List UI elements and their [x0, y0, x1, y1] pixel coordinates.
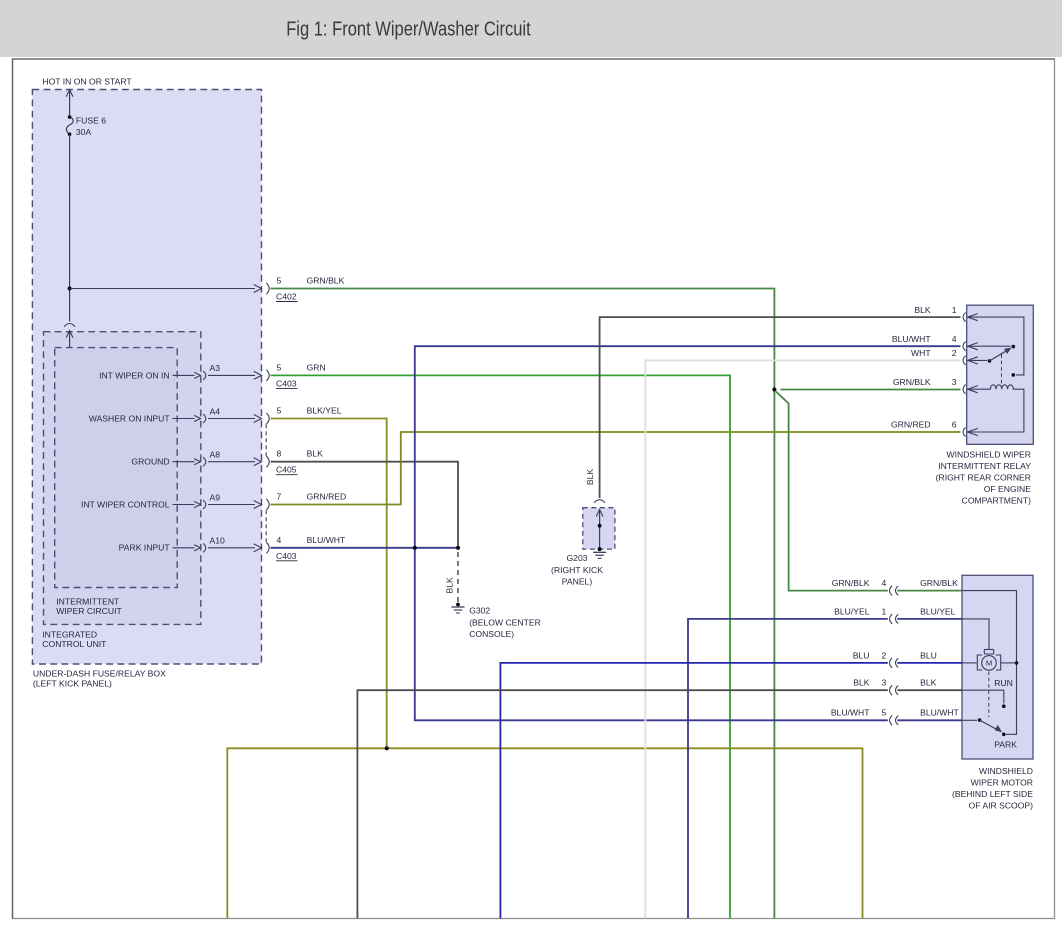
- connector to G203 (arc): [594, 500, 605, 503]
- relay coil: [968, 385, 1024, 432]
- svg-text:(RIGHT KICK: (RIGHT KICK: [551, 565, 603, 575]
- wire GRN/BLK: junction jog down to wiper motor pin 4: [776, 392, 888, 591]
- motor M symbol: [982, 656, 997, 671]
- connector C403 pin 5 (GRN): [254, 371, 262, 379]
- motor internal: pin 4 run to park contact: [962, 591, 1017, 735]
- svg-text:M: M: [986, 659, 992, 668]
- relay pin 2 connector (WHT): [963, 356, 966, 365]
- node: motor terminal junction: [1015, 661, 1019, 665]
- node: BLK to ground / park input junction: [456, 546, 460, 550]
- svg-text:(RIGHT REAR CORNER: (RIGHT REAR CORNER: [936, 472, 1031, 482]
- wire: [208, 547, 255, 549]
- svg-text:GROUND: GROUND: [131, 457, 169, 467]
- windshield wiper intermittent relay box: [967, 305, 1034, 444]
- svg-text:(BELOW CENTER: (BELOW CENTER: [469, 617, 541, 627]
- connector C405 pin 7 (GRN/RED): [254, 501, 262, 509]
- G203 internal lead: [596, 510, 603, 517]
- svg-text:3: 3: [952, 377, 957, 387]
- ground G203 symbol: [593, 551, 606, 553]
- wire BLU/YEL: wiper motor pin 1 down to bottom: [688, 619, 888, 918]
- svg-text:A4: A4: [210, 406, 221, 416]
- svg-text:INTERMITTENT: INTERMITTENT: [56, 596, 120, 606]
- svg-text:A9: A9: [210, 492, 221, 502]
- svg-text:C403: C403: [276, 551, 297, 561]
- svg-text:INT WIPER ON IN: INT WIPER ON IN: [99, 370, 170, 380]
- svg-text:5: 5: [882, 708, 887, 718]
- relay internal: pin 4 contact: [968, 345, 1011, 347]
- fuse F6 30A: [66, 117, 73, 134]
- relay pin 3 connector (GRN/BLK): [963, 385, 966, 394]
- relay switch arm: [990, 351, 1006, 361]
- svg-text:BLK: BLK: [307, 449, 324, 459]
- relay pin 6 connector (GRN/RED): [963, 427, 966, 436]
- svg-text:G302: G302: [469, 606, 490, 616]
- wire BLK: relay pin 1 to G203: [600, 317, 961, 498]
- node: GRN/BLK junction at relay pin 3 feed: [772, 387, 776, 391]
- wire WHT: relay pin 2 down to bottom: [645, 360, 960, 918]
- motor park switch mechanical link (dashed): [988, 672, 990, 718]
- svg-text:8: 8: [277, 449, 282, 459]
- wire BLK/YEL: C405 A4 down to distribution junction: [271, 419, 387, 749]
- connector C402 pin 5 (GRN/BLK): [254, 285, 262, 293]
- svg-text:4: 4: [277, 535, 282, 545]
- wire BLK/YEL: horizontal distribution run: [227, 748, 862, 918]
- svg-text:CONTROL UNIT: CONTROL UNIT: [42, 639, 107, 649]
- svg-text:A3: A3: [210, 363, 221, 373]
- wire: [208, 374, 255, 376]
- svg-text:5: 5: [277, 276, 282, 286]
- wire GRN/BLK: junction to relay pin 3: [781, 389, 961, 391]
- svg-text:C403: C403: [276, 378, 297, 388]
- svg-text:COMPARTMENT): COMPARTMENT): [962, 495, 1032, 505]
- motor connector pin 4 (GRN/BLK): [890, 586, 893, 596]
- motor internal: pin 5 to switch common: [962, 719, 977, 721]
- svg-text:C405: C405: [276, 465, 297, 475]
- intermittent wiper circuit box: [55, 348, 178, 588]
- svg-text:INT WIPER CONTROL: INT WIPER CONTROL: [81, 499, 170, 509]
- title bar: [0, 0, 1062, 57]
- svg-text:(LEFT KICK PANEL): (LEFT KICK PANEL): [33, 678, 112, 688]
- node: [598, 524, 602, 528]
- svg-text:CONSOLE): CONSOLE): [469, 629, 514, 639]
- svg-text:OF ENGINE: OF ENGINE: [984, 484, 1032, 494]
- relay mechanical link (dashed): [1001, 355, 1003, 386]
- ground G302: [456, 603, 460, 607]
- svg-text:4: 4: [882, 578, 887, 588]
- svg-text:BLU/YEL: BLU/YEL: [834, 606, 870, 616]
- connector C403 pin 4 (BLU/WHT): [254, 544, 262, 552]
- svg-text:PANEL): PANEL): [562, 577, 593, 587]
- svg-text:BLU: BLU: [853, 650, 870, 660]
- svg-text:GRN/BLK: GRN/BLK: [920, 578, 958, 588]
- node: [598, 547, 602, 551]
- wire: [208, 461, 255, 463]
- svg-text:GRN/BLK: GRN/BLK: [832, 578, 870, 588]
- svg-text:WHT: WHT: [911, 348, 931, 358]
- svg-text:PARK INPUT: PARK INPUT: [119, 543, 171, 553]
- svg-text:7: 7: [277, 492, 282, 502]
- motor internal: motor right terminal: [1001, 662, 1017, 664]
- svg-text:C402: C402: [276, 292, 297, 302]
- svg-text:BLK: BLK: [920, 678, 937, 688]
- wire GRN/BLK: C402 to relay pin 3 junction, down to bottom: [271, 289, 775, 919]
- svg-text:WASHER ON INPUT: WASHER ON INPUT: [89, 413, 171, 423]
- wire: [208, 504, 255, 506]
- svg-text:WINDSHIELD WIPER: WINDSHIELD WIPER: [946, 449, 1031, 459]
- connector C405 pin 8 (BLK): [254, 458, 262, 466]
- wire BLU: wiper motor pin 2 down to bottom: [500, 663, 887, 918]
- integrated control unit box: [44, 332, 201, 625]
- connector C405 pin 5 (BLK/YEL): [254, 415, 262, 423]
- motor connector pin 2 (BLU): [890, 658, 893, 668]
- motor park switch arm: [980, 720, 996, 729]
- svg-text:WINDSHIELD: WINDSHIELD: [979, 766, 1033, 776]
- connector link C405 (dashed between pins): [265, 424, 267, 456]
- motor connector pin 5 (BLU/WHT): [890, 715, 893, 725]
- svg-text:G203: G203: [566, 553, 587, 563]
- svg-text:6: 6: [952, 420, 957, 430]
- svg-text:WIPER CIRCUIT: WIPER CIRCUIT: [56, 606, 122, 616]
- svg-text:BLK: BLK: [585, 469, 595, 486]
- svg-text:BLU/WHT: BLU/WHT: [307, 535, 346, 545]
- relay pin 1 connector (BLK): [963, 313, 966, 322]
- svg-text:UNDER-DASH FUSE/RELAY BOX: UNDER-DASH FUSE/RELAY BOX: [33, 668, 166, 678]
- svg-text:GRN/RED: GRN/RED: [307, 492, 347, 502]
- motor connector pin 3 (BLK): [890, 685, 893, 695]
- svg-text:GRN/RED: GRN/RED: [891, 420, 931, 430]
- svg-text:INTERMITTENT RELAY: INTERMITTENT RELAY: [938, 461, 1031, 471]
- connector link C403 (dashed between pins): [265, 510, 267, 542]
- wire BLK: C405 A8 ground lead to G302: [271, 462, 459, 548]
- svg-text:RUN: RUN: [994, 678, 1013, 688]
- svg-text:PARK: PARK: [994, 740, 1017, 750]
- svg-text:HOT IN ON OR START: HOT IN ON OR START: [42, 76, 132, 86]
- wire GRN: C403 A3 down to bottom: [271, 375, 731, 918]
- motor connector pin 1 (BLU/YEL): [890, 614, 893, 624]
- svg-text:2: 2: [882, 650, 887, 660]
- connector pass-through into integrated control unit: [64, 324, 75, 327]
- svg-text:WIPER MOTOR: WIPER MOTOR: [971, 778, 1033, 788]
- svg-text:BLU/WHT: BLU/WHT: [920, 708, 959, 718]
- wire BLU/WHT: relay pin 4 down to wiper motor pin 5: [415, 346, 961, 720]
- wire: fuse to junction and down to ICU: [69, 134, 71, 321]
- node: BLK/YEL distribution junction: [385, 746, 389, 750]
- relay internal: pin 2 to switch arm: [968, 359, 987, 361]
- svg-text:A8: A8: [210, 450, 221, 460]
- wire BLK: wiper motor pin 3 down to bottom: [357, 690, 887, 918]
- svg-text:BLK: BLK: [914, 305, 931, 315]
- svg-text:OF AIR SCOOP): OF AIR SCOOP): [969, 801, 1034, 811]
- svg-text:2: 2: [952, 348, 957, 358]
- windshield wiper motor box: [962, 575, 1033, 759]
- svg-text:BLK: BLK: [853, 678, 870, 688]
- svg-text:FUSE 6: FUSE 6: [76, 116, 106, 126]
- svg-text:GRN/BLK: GRN/BLK: [893, 377, 931, 387]
- svg-text:GRN/BLK: GRN/BLK: [307, 276, 345, 286]
- svg-text:5: 5: [277, 406, 282, 416]
- svg-text:1: 1: [882, 606, 887, 616]
- svg-text:4: 4: [952, 334, 957, 344]
- wire: fuse feed to connector C402: [70, 288, 255, 290]
- under-dash fuse/relay box: [32, 90, 261, 665]
- svg-text:BLK/YEL: BLK/YEL: [307, 406, 342, 416]
- relay internal: pin 1 to switch contact: [968, 317, 1024, 375]
- svg-text:BLU/WHT: BLU/WHT: [892, 334, 931, 344]
- svg-text:(BEHIND LEFT SIDE: (BEHIND LEFT SIDE: [952, 789, 1033, 799]
- svg-text:Fig 1: Front Wiper/Washer Circ: Fig 1: Front Wiper/Washer Circuit: [286, 19, 531, 41]
- motor internal: pin 2 to motor: [962, 662, 977, 664]
- motor internal: pin 3 to RUN contact: [962, 690, 1004, 703]
- ground unit G203 box: [583, 508, 615, 549]
- svg-text:BLU: BLU: [920, 650, 937, 660]
- wire BLU/WHT: C403 A10 horizontal: [271, 547, 459, 549]
- svg-text:3: 3: [882, 678, 887, 688]
- node: fuse output junction: [68, 287, 72, 291]
- relay pin 4 connector (BLU/WHT): [963, 342, 966, 351]
- svg-text:1: 1: [952, 305, 957, 315]
- wire: battery feed into fuse box (arrow up at box top): [66, 90, 73, 97]
- wire BLK (dashed continuation to G302): [457, 552, 459, 603]
- node: BLU/WHT junction to relay pin 4: [413, 546, 417, 550]
- wire: [208, 418, 255, 420]
- wire GRN/RED: C403 A9 up and across to relay pin 6: [271, 432, 961, 505]
- svg-text:BLU/WHT: BLU/WHT: [831, 708, 870, 718]
- svg-text:5: 5: [277, 362, 282, 372]
- svg-text:30A: 30A: [76, 127, 92, 137]
- svg-text:INTEGRATED: INTEGRATED: [42, 630, 97, 640]
- svg-text:BLU/YEL: BLU/YEL: [920, 606, 956, 616]
- svg-text:BLK: BLK: [444, 577, 454, 594]
- svg-text:A10: A10: [210, 536, 226, 546]
- svg-text:GRN: GRN: [307, 362, 326, 372]
- motor internal: pin 1 to motor top: [962, 619, 989, 649]
